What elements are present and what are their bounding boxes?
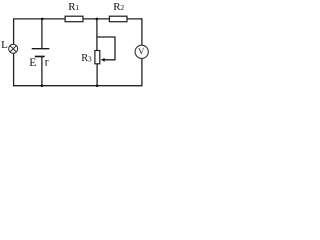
svg-text:3: 3 [88,55,92,64]
svg-text:2: 2 [120,3,124,12]
svg-text:r: r [45,55,49,69]
svg-text:E: E [29,57,36,69]
svg-text:L: L [1,39,8,51]
svg-text:1: 1 [75,3,79,12]
svg-text:V: V [138,46,145,56]
